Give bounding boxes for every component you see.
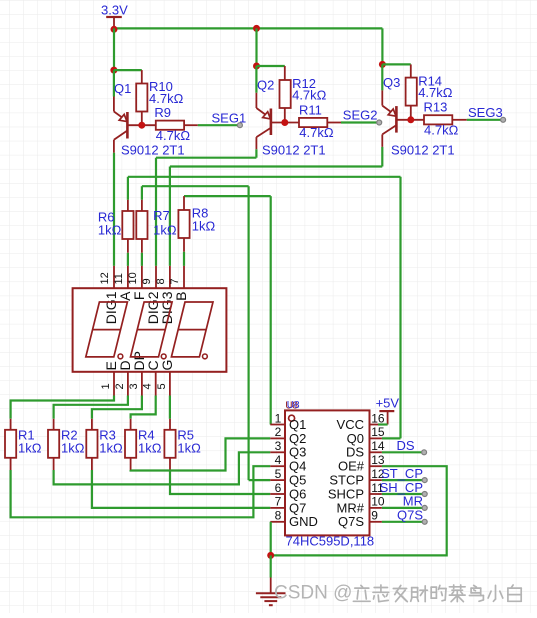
wire to SEG1 [198,124,240,126]
pin1 marker circle [289,415,295,421]
wire R5 to U8 pin6 [170,470,270,494]
svg-text:SEG2: SEG2 [343,108,378,123]
svg-text:1kΩ: 1kΩ [98,223,122,238]
svg-text:S9012 2T1: S9012 2T1 [262,143,326,158]
svg-text:MR#: MR# [337,500,365,515]
digit glyph 2 [131,302,173,357]
resistor R11 [299,118,327,127]
svg-text:1kΩ: 1kΩ [153,223,177,238]
wire pin5 to R5 [169,396,171,419]
wire to ground symbol [270,555,272,577]
wire rail drop Q3 [381,28,383,64]
wire GND pin8 down [270,522,272,556]
wire MR pin10 [382,507,425,509]
svg-text:CSDN @: CSDN @ [274,583,352,604]
wire 3.3V rail [114,27,382,29]
wire R8 to pin7 [183,252,185,266]
node rail Q2 tap [253,25,260,32]
pin 2 lead [127,372,129,396]
svg-text:DS: DS [346,445,364,460]
svg-text:Q7S: Q7S [397,508,423,523]
wire Q1 collector to DIG1 pin12 [113,153,115,266]
resistor R14 [410,64,412,77]
wire OE# pin13 to ground loop [271,466,447,555]
pin 12 stub [370,479,382,481]
decimal point 2 [161,354,166,359]
svg-text:6: 6 [275,481,282,495]
svg-text:R9: R9 [154,105,171,120]
wire R8 to U8 Q1 bus [184,195,271,197]
pin 4 stub [270,465,285,467]
wire to SEG3 [467,119,503,121]
pin 9 lead [155,266,157,288]
svg-text:1kΩ: 1kΩ [177,440,201,455]
svg-text:4.7kΩ: 4.7kΩ [156,128,191,143]
pin 3 stub [270,451,285,453]
wire Q2 base [271,122,299,124]
resistor R6 [127,200,129,211]
wire R7 to pin10 [141,253,143,266]
wire pin2 to R2 [54,396,128,419]
pin 5 stub [270,479,285,481]
svg-text:Q1: Q1 [114,81,131,96]
svg-text:8: 8 [155,278,167,284]
pin 1 stub [270,424,285,426]
svg-text:3: 3 [128,383,140,389]
transistor Q2 [255,93,257,108]
node Q1 emitter branch [110,67,117,74]
transistor Q1 [113,97,115,112]
wire R3 to U8 pin7 [92,470,270,508]
svg-text:2: 2 [275,425,282,439]
svg-text:9: 9 [141,278,153,284]
resistor R1 [10,419,12,430]
pin 11 lead [127,266,129,288]
wire R4 to U8 pin2 [131,438,271,470]
svg-text:Q3: Q3 [289,445,306,460]
digit glyph 1 [86,302,128,357]
pin 13 stub [370,465,382,467]
wire R1 to U8 pin4 [11,466,271,517]
pin 8 stub [270,521,285,523]
svg-text:74HC595D,118: 74HC595D,118 [286,534,375,549]
svg-text:2: 2 [114,383,126,389]
pin 14 stub [370,451,382,453]
svg-text:8: 8 [275,509,282,523]
svg-text:U8: U8 [287,400,300,411]
svg-text:7: 7 [275,495,282,509]
svg-text:9: 9 [371,509,378,523]
svg-text:4.7kΩ: 4.7kΩ [149,91,184,106]
wire R10 feed [114,69,142,71]
svg-text:1kΩ: 1kΩ [61,440,85,455]
pin 10 lead [141,266,143,288]
node Q3 emitter branch [379,61,386,68]
wire rail drop Q1 [113,28,115,70]
svg-text:5: 5 [156,383,168,389]
svg-text:5: 5 [275,467,282,481]
svg-text:B: B [173,292,189,301]
pin 2 stub [270,437,285,439]
resistor R7 [141,200,143,211]
node GND junction [267,552,274,559]
svg-text:1kΩ: 1kΩ [99,440,123,455]
svg-text:R13: R13 [424,100,448,115]
wire rail drop Q2 [255,28,257,66]
pin 15 stub [370,437,382,439]
wire R7 to U8 Q5 bus [141,186,143,200]
IC U8 74HC595D [285,410,370,535]
pin 4 lead [155,372,157,396]
svg-text:Q4: Q4 [289,459,306,474]
wire Q2 emitter feed [255,66,257,93]
pin 6 stub [270,493,285,495]
node Q3 base junction [407,116,414,123]
svg-text:R11: R11 [299,102,322,117]
wire R2 to U8 pin3 [54,452,271,484]
svg-text:G: G [159,360,175,371]
wire pin4 to R4 [131,396,156,419]
digit glyph 3 [171,302,213,357]
svg-text:Q3: Q3 [383,75,400,90]
svg-text:Q7: Q7 [289,500,306,515]
svg-text:1kΩ: 1kΩ [18,440,42,455]
wire Q3 base [396,119,424,121]
svg-text:R7: R7 [153,208,170,223]
svg-text:Q2: Q2 [257,78,274,93]
wire Q2 collector to DIG2 pin9 [255,149,257,157]
wire Q3 collector to DIG3 pin8 [381,147,383,167]
wire to SEG2 [341,121,379,123]
svg-text:3.3V: 3.3V [101,3,128,18]
wire Q1 emitter feed [113,70,115,96]
svg-text:4: 4 [142,383,154,389]
svg-text:DS: DS [396,438,414,453]
svg-text:SEG3: SEG3 [468,105,503,120]
pin 12 lead [113,266,115,288]
svg-text:MR: MR [403,494,423,509]
wire DS pin14 [382,451,424,453]
svg-text:S9012 2T1: S9012 2T1 [391,143,455,158]
svg-text:ST_CP: ST_CP [381,466,423,481]
pin 9 stub [370,521,382,523]
svg-text:1kΩ: 1kΩ [138,440,162,455]
svg-text:13: 13 [371,453,385,467]
svg-text:SH_CP: SH_CP [380,480,423,495]
svg-text:VCC: VCC [337,417,364,432]
svg-text:Q1: Q1 [289,417,306,432]
wire SH_CP pin11 [382,493,425,495]
wire R14 feed [382,63,410,65]
svg-text:4.7kΩ: 4.7kΩ [424,122,459,137]
wire R12 feed [257,65,285,67]
resistor R5 [169,419,171,430]
wire R6 to pin11 [127,253,129,266]
wire Q1 base [127,124,155,126]
wire Q3 emitter feed [381,64,383,90]
svg-text:4.7kΩ: 4.7kΩ [292,88,327,103]
resistor R4 [130,419,132,430]
svg-text:4: 4 [275,453,282,467]
wire R6 to U8 Q0 bus [127,177,129,200]
svg-text:7: 7 [169,278,181,284]
resistor R13 [424,115,452,124]
svg-text:SHCP: SHCP [328,486,364,501]
svg-text:11: 11 [113,273,125,284]
svg-text:10: 10 [127,272,139,284]
svg-text:16: 16 [371,411,385,425]
wire VCC to +5V [378,423,388,425]
node 3.3V junction [111,26,118,33]
resistor R3 [91,419,93,430]
svg-text:Q6: Q6 [289,486,306,501]
resistor R12 [284,66,286,80]
pin 7 lead [183,266,185,288]
transistor Q3 [381,90,383,105]
svg-text:STCP: STCP [329,473,364,488]
svg-text:OE#: OE# [338,459,365,474]
pin 5 lead [169,372,171,396]
svg-text:1: 1 [275,411,282,425]
ground symbol [270,578,272,594]
svg-text:1: 1 [100,383,112,389]
svg-text:Q0: Q0 [347,431,364,446]
node Q1 base junction [138,122,145,129]
resistor R8 [183,196,185,210]
svg-text:12: 12 [99,272,111,284]
resistor R9 [156,121,184,130]
wire Q7S pin9 [382,521,425,523]
svg-text:1kΩ: 1kΩ [192,219,216,234]
svg-text:3: 3 [275,439,282,453]
svg-text:GND: GND [289,514,318,529]
pin 11 stub [370,493,382,495]
pin 1 lead [113,372,115,396]
decimal point 1 [118,354,123,359]
svg-text:S9012 2T1: S9012 2T1 [121,143,185,158]
pin 10 stub [370,507,382,509]
svg-text:Q5: Q5 [289,473,306,488]
svg-text:Q2: Q2 [289,431,306,446]
svg-text:14: 14 [371,439,385,453]
svg-text:4.7kΩ: 4.7kΩ [299,125,334,140]
resistor R10 [141,70,143,83]
wire pin1 to R1 [11,396,114,419]
svg-text:+5V: +5V [376,396,400,411]
decimal point 3 [203,354,208,359]
pin 8 lead [169,266,171,288]
pin 16 stub [370,424,382,426]
wire pin3 to R3 [92,396,142,419]
svg-text:10: 10 [371,495,385,509]
svg-text:Q7S: Q7S [338,514,364,529]
svg-text:15: 15 [371,425,385,439]
node Q2 emitter branch [253,63,260,70]
pin 7 stub [270,507,285,509]
node Q2 base junction [281,119,288,126]
wire ST_CP pin12 [382,479,425,481]
svg-text:4.7kΩ: 4.7kΩ [418,85,453,100]
resistor R2 [53,419,55,430]
pin 3 lead [141,372,143,396]
display DS1 3-digit 7-segment [73,288,227,372]
